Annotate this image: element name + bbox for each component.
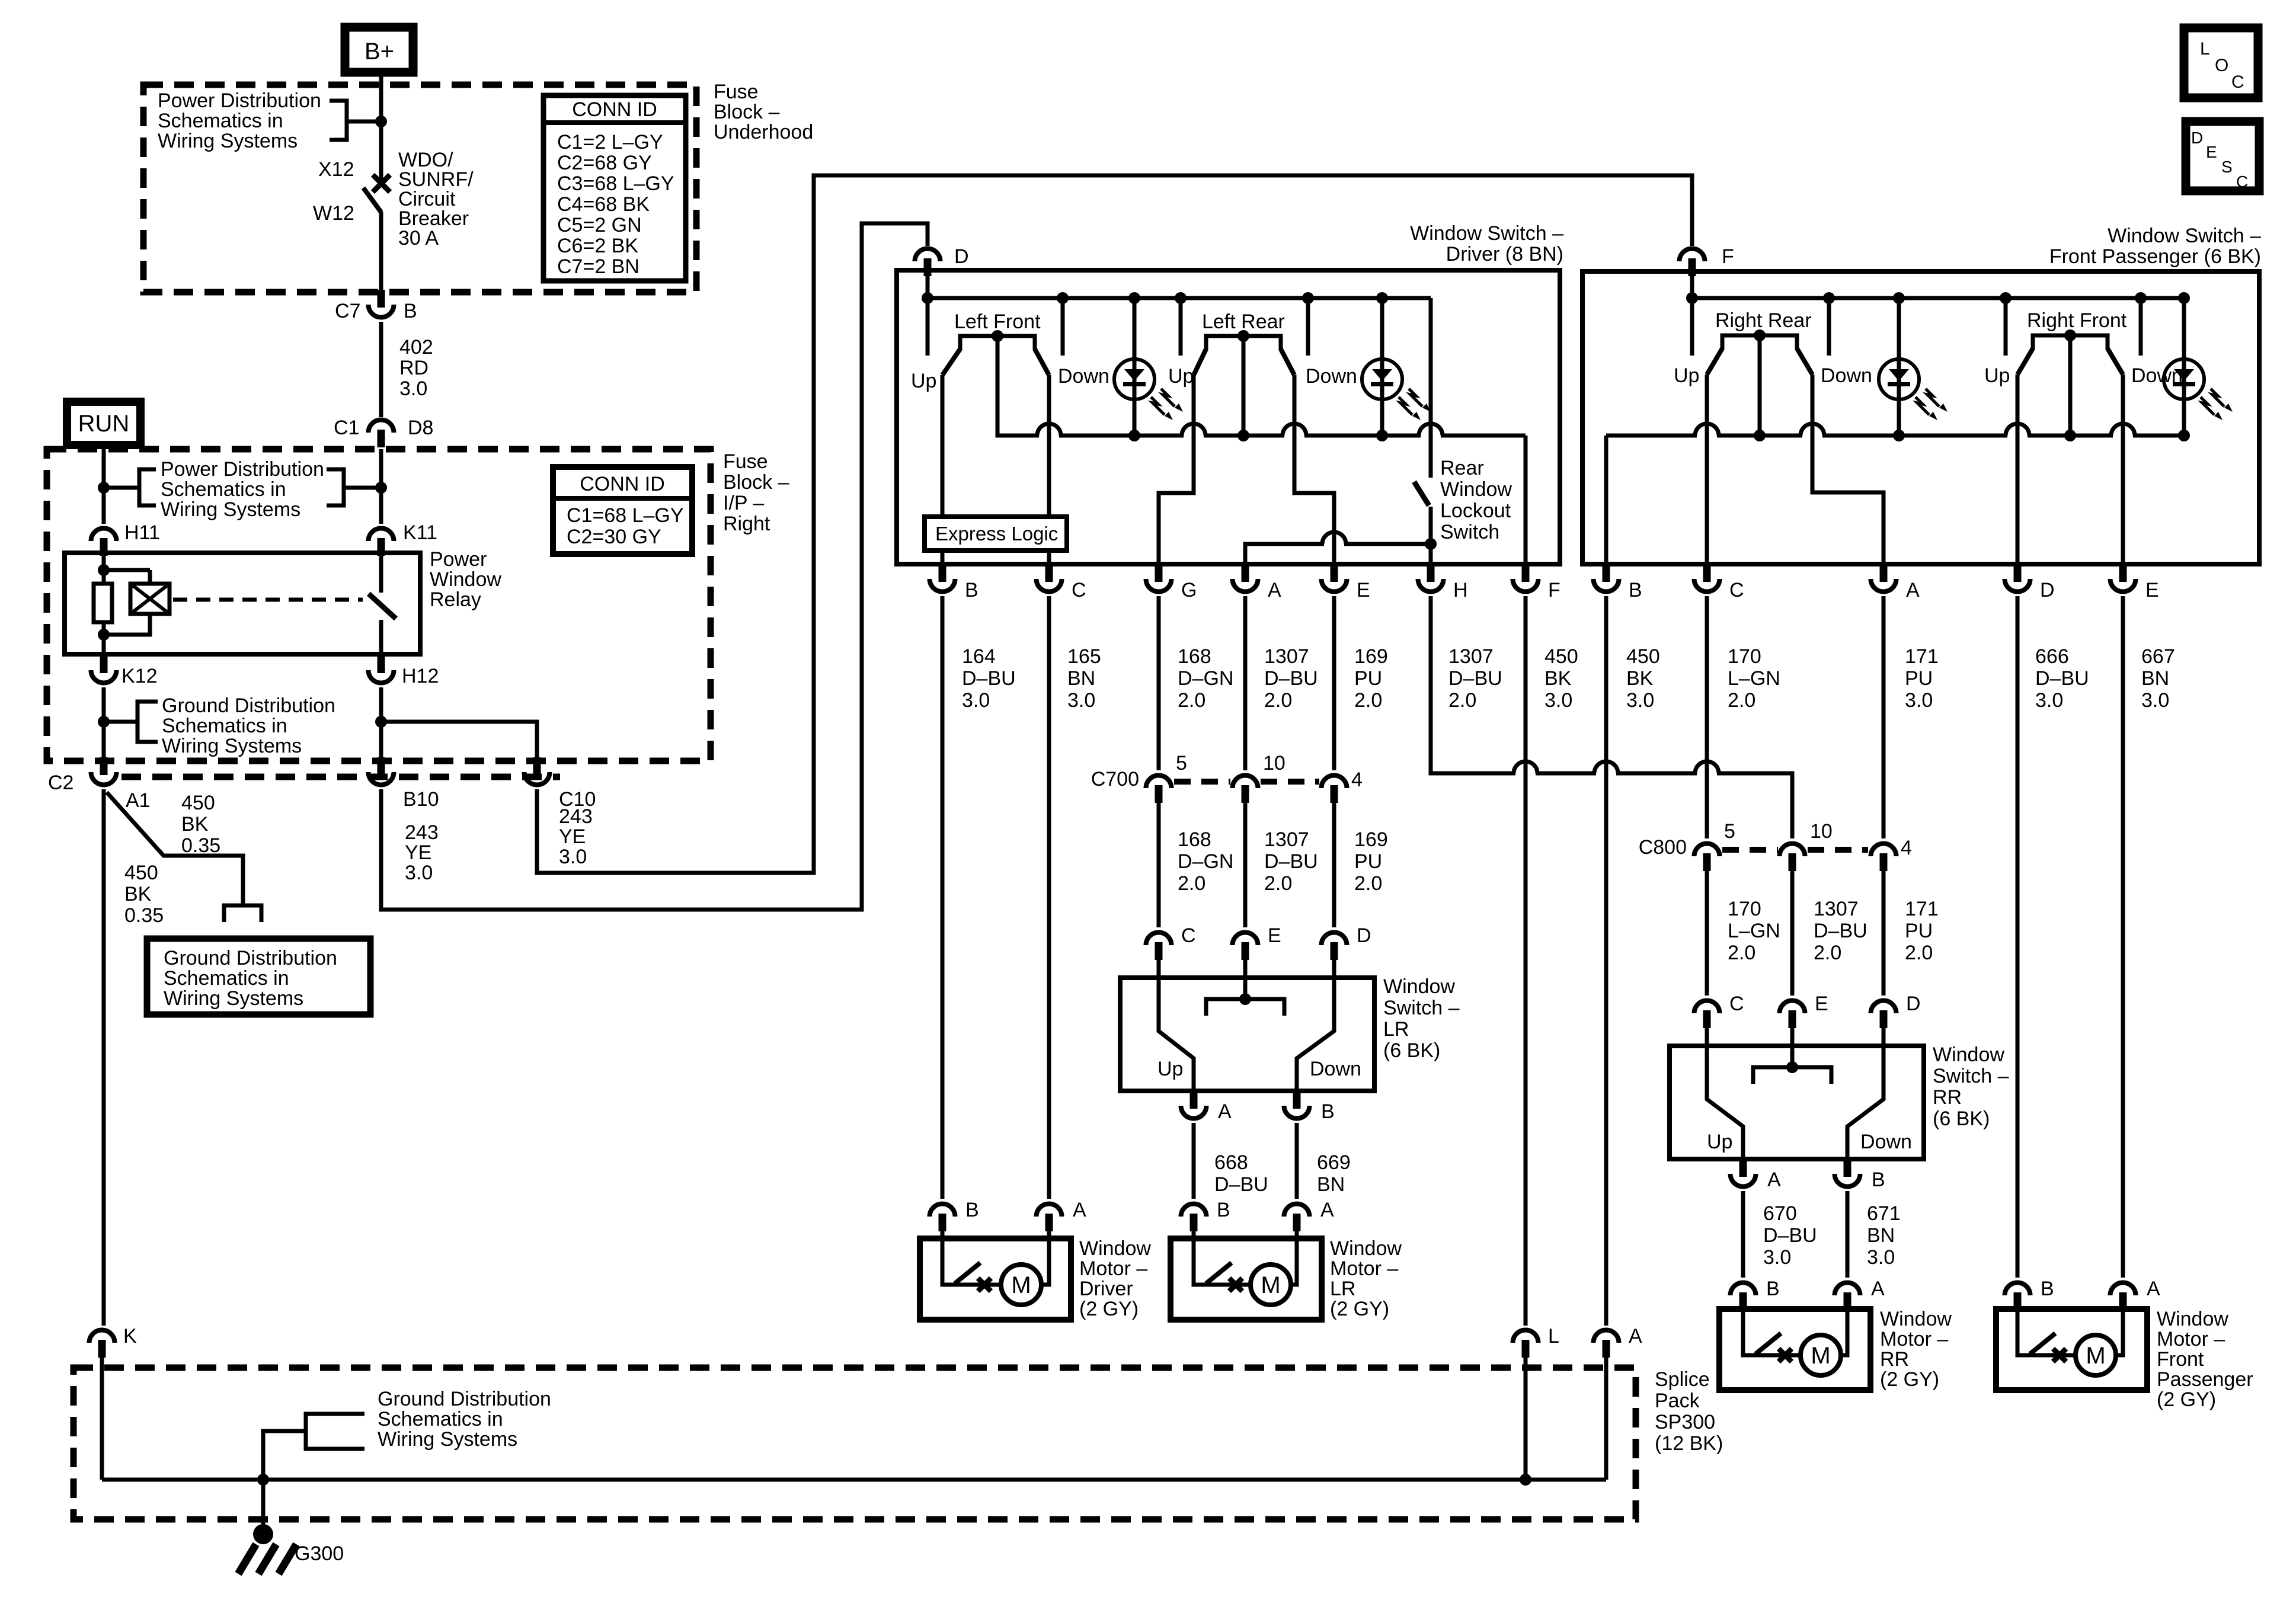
circuit breaker 30A X12/W12 bbox=[373, 175, 390, 192]
svg-text:Window: Window bbox=[1383, 975, 1455, 998]
svg-text:Ground Distribution: Ground Distribution bbox=[164, 947, 337, 969]
dashed box Fuse Block - Underhood bbox=[143, 85, 696, 292]
svg-text:B: B bbox=[404, 300, 417, 322]
svg-text:X12: X12 bbox=[318, 158, 354, 181]
svg-text:(6 BK): (6 BK) bbox=[1933, 1108, 1990, 1130]
svg-text:(2 GY): (2 GY) bbox=[1079, 1298, 1139, 1320]
svg-text:D–BU: D–BU bbox=[1264, 667, 1318, 690]
wire 670 bbox=[1741, 1191, 1745, 1278]
svg-text:C7: C7 bbox=[335, 300, 360, 322]
wire 168 pin G to C700 bbox=[1157, 596, 1161, 770]
wire 171 FP pin A to C800 bbox=[1882, 596, 1886, 838]
svg-text:C7=2 BN: C7=2 BN bbox=[557, 255, 639, 278]
svg-text:Power: Power bbox=[430, 548, 487, 571]
svg-text:B: B bbox=[1872, 1169, 1885, 1191]
svg-text:Left Front: Left Front bbox=[954, 311, 1041, 333]
svg-text:B: B bbox=[1217, 1199, 1230, 1221]
svg-text:Up: Up bbox=[1707, 1131, 1732, 1153]
svg-text:Switch –: Switch – bbox=[1383, 997, 1460, 1019]
LR aux down blade bbox=[1297, 978, 1334, 1091]
power symbol B+ box bbox=[345, 27, 413, 72]
wire 164 pin B to driver motor bbox=[941, 596, 945, 1199]
svg-text:168: 168 bbox=[1178, 828, 1211, 851]
connector RR motor pin A bbox=[1835, 1283, 1860, 1296]
svg-text:165: 165 bbox=[1067, 645, 1101, 668]
box Window Switch - Driver bbox=[897, 270, 1560, 564]
svg-text:B+: B+ bbox=[364, 39, 394, 65]
svg-text:BK: BK bbox=[1544, 667, 1572, 690]
svg-text:H: H bbox=[1453, 579, 1468, 601]
svg-text:D8: D8 bbox=[408, 417, 433, 439]
svg-text:Switch: Switch bbox=[1440, 521, 1499, 543]
wire 450 pin F to splice L bbox=[1524, 596, 1528, 1326]
table CONN ID I/P bbox=[553, 467, 692, 554]
svg-text:5: 5 bbox=[1724, 820, 1735, 843]
wires C800 to RR switch bbox=[1705, 869, 1709, 996]
svg-text:S: S bbox=[2221, 158, 2233, 176]
LED left front down bbox=[1133, 347, 1137, 412]
svg-text:A: A bbox=[1906, 579, 1920, 601]
relay switch bbox=[379, 555, 383, 593]
svg-text:Window: Window bbox=[1440, 478, 1512, 501]
connector C7 pin B bbox=[369, 305, 394, 318]
driver bus1 bbox=[928, 296, 1431, 300]
svg-text:PU: PU bbox=[1905, 667, 1933, 690]
wire 668 bbox=[1192, 1123, 1196, 1199]
svg-text:2.0: 2.0 bbox=[1264, 689, 1292, 712]
svg-text:BK: BK bbox=[124, 883, 152, 905]
svg-text:Down: Down bbox=[1821, 364, 1872, 387]
svg-text:Down: Down bbox=[1860, 1131, 1912, 1153]
connector C10 bbox=[525, 772, 550, 785]
svg-text:Right: Right bbox=[723, 513, 770, 535]
FP bus2 bbox=[1606, 434, 2184, 438]
svg-text:LR: LR bbox=[1330, 1278, 1355, 1300]
svg-text:Down: Down bbox=[2131, 364, 2183, 387]
svg-text:Wiring Systems: Wiring Systems bbox=[161, 498, 300, 521]
svg-text:E: E bbox=[1268, 924, 1281, 947]
wire 169 pin E to C700 bbox=[1332, 596, 1336, 770]
relay coil linkage dashed bbox=[173, 598, 363, 602]
svg-text:Power Distribution: Power Distribution bbox=[158, 89, 321, 112]
wire 402 RD bbox=[379, 322, 383, 417]
svg-text:667: 667 bbox=[2141, 645, 2175, 668]
wire K into splice pack bbox=[100, 1357, 104, 1480]
RR aux up blade bbox=[1707, 1046, 1743, 1159]
svg-text:B: B bbox=[1766, 1278, 1780, 1300]
svg-text:Wiring Systems: Wiring Systems bbox=[378, 1428, 517, 1451]
svg-text:Switch –: Switch – bbox=[1933, 1065, 2009, 1087]
svg-text:Power Distribution: Power Distribution bbox=[161, 458, 324, 481]
svg-text:30 A: 30 A bbox=[398, 227, 439, 249]
wire 165 pin C to driver motor bbox=[1047, 596, 1051, 1199]
svg-text:B: B bbox=[965, 1199, 979, 1221]
connector K12 bbox=[91, 670, 117, 683]
svg-text:D–BU: D–BU bbox=[2035, 667, 2089, 690]
svg-text:670: 670 bbox=[1763, 1202, 1797, 1225]
svg-text:E: E bbox=[1357, 579, 1370, 601]
svg-text:2.0: 2.0 bbox=[1178, 689, 1205, 712]
window motor RR bbox=[1719, 1309, 1870, 1390]
connector LR motor pin A bbox=[1284, 1204, 1310, 1217]
svg-text:Schematics in: Schematics in bbox=[158, 110, 283, 132]
svg-text:243: 243 bbox=[405, 821, 439, 844]
LR down blade wire to pin E bbox=[1294, 375, 1334, 564]
svg-text:I/P –: I/P – bbox=[723, 492, 764, 514]
svg-text:C3=68 L–GY: C3=68 L–GY bbox=[557, 172, 674, 195]
svg-text:0.35: 0.35 bbox=[124, 904, 164, 927]
svg-text:RUN: RUN bbox=[78, 411, 130, 437]
driver switch pins bbox=[930, 579, 955, 592]
LF common wire bbox=[997, 336, 1526, 436]
rocker left front bbox=[960, 336, 1035, 350]
svg-text:Ground Distribution: Ground Distribution bbox=[378, 1388, 551, 1410]
connectors into RR switch bbox=[1694, 1001, 1720, 1014]
connector K bbox=[89, 1330, 115, 1343]
svg-text:CONN ID: CONN ID bbox=[572, 98, 657, 121]
svg-text:Window: Window bbox=[430, 568, 501, 591]
svg-text:Up: Up bbox=[1157, 1058, 1183, 1080]
svg-text:Wiring Systems: Wiring Systems bbox=[158, 130, 298, 152]
svg-text:168: 168 bbox=[1178, 645, 1211, 668]
LED right rear down bbox=[1897, 347, 1901, 412]
bus1 contact stubs bbox=[926, 298, 930, 356]
svg-text:2.0: 2.0 bbox=[1448, 689, 1476, 712]
node H12 to C10 branch bbox=[375, 716, 387, 728]
svg-text:Down: Down bbox=[1310, 1058, 1361, 1080]
RF common wire bbox=[2068, 335, 2073, 436]
ground G300 bbox=[261, 1480, 266, 1529]
svg-text:3.0: 3.0 bbox=[1626, 689, 1654, 712]
box Window Switch - Front Passenger bbox=[1582, 271, 2259, 564]
svg-text:2.0: 2.0 bbox=[1728, 689, 1755, 712]
svg-text:W12: W12 bbox=[313, 202, 354, 225]
svg-text:402: 402 bbox=[399, 336, 433, 359]
express logic box bbox=[925, 517, 1067, 550]
svg-text:Fuse: Fuse bbox=[723, 450, 768, 473]
svg-text:171: 171 bbox=[1905, 898, 1939, 920]
connector B10 bbox=[369, 772, 394, 785]
relay box Power Window Relay bbox=[65, 553, 420, 654]
svg-text:CONN ID: CONN ID bbox=[580, 473, 665, 495]
LR aux pins bbox=[1181, 1106, 1207, 1119]
svg-text:Window: Window bbox=[1079, 1237, 1151, 1260]
wire D into bus bbox=[926, 270, 930, 298]
svg-text:E: E bbox=[2145, 579, 2159, 601]
connector C2 pin A1 bbox=[91, 772, 117, 785]
svg-text:PU: PU bbox=[1905, 920, 1933, 942]
node on C1-D8 wire bbox=[375, 482, 387, 494]
svg-text:B: B bbox=[2041, 1278, 2054, 1300]
svg-text:(2 GY): (2 GY) bbox=[1330, 1298, 1389, 1320]
svg-text:C1=2 L–GY: C1=2 L–GY bbox=[557, 131, 663, 153]
rocker left rear bbox=[1206, 336, 1281, 350]
wire A1 branch bbox=[107, 792, 243, 905]
svg-text:450: 450 bbox=[124, 862, 158, 884]
box Window Switch - RR bbox=[1670, 1046, 1924, 1159]
connector C1 pin D8 bbox=[369, 420, 394, 433]
svg-text:A: A bbox=[1218, 1100, 1232, 1123]
svg-text:3.0: 3.0 bbox=[962, 689, 990, 712]
svg-text:C2=30 GY: C2=30 GY bbox=[567, 526, 661, 548]
svg-text:C: C bbox=[1181, 924, 1196, 947]
svg-text:1307: 1307 bbox=[1448, 645, 1494, 668]
wire pin A to lockout bbox=[1245, 544, 1431, 564]
svg-text:3.0: 3.0 bbox=[2141, 689, 2169, 712]
svg-text:(12 BK): (12 BK) bbox=[1655, 1432, 1723, 1455]
svg-text:D: D bbox=[1906, 993, 1921, 1015]
svg-text:Pack: Pack bbox=[1655, 1390, 1700, 1412]
svg-text:450: 450 bbox=[1626, 645, 1660, 668]
svg-text:Splice: Splice bbox=[1655, 1368, 1710, 1391]
svg-text:Up: Up bbox=[1674, 364, 1699, 387]
svg-text:Front: Front bbox=[2157, 1348, 2204, 1371]
FP bus1 bbox=[1692, 296, 2184, 300]
dashed box Splice Pack SP300 bbox=[73, 1368, 1636, 1519]
relay coil branch bbox=[102, 555, 106, 584]
svg-text:M: M bbox=[1261, 1272, 1280, 1298]
FP bus1 contact stubs bbox=[1690, 298, 1694, 356]
svg-text:C5=2 GN: C5=2 GN bbox=[557, 214, 642, 236]
svg-text:Block –: Block – bbox=[723, 471, 789, 494]
LF up blade wire to pin B bbox=[941, 375, 945, 564]
svg-text:C: C bbox=[1729, 993, 1744, 1015]
wire C1 to K11 bbox=[379, 449, 383, 524]
svg-text:PU: PU bbox=[1354, 850, 1382, 873]
svg-text:Schematics in: Schematics in bbox=[378, 1408, 503, 1430]
svg-text:3.0: 3.0 bbox=[1905, 689, 1933, 712]
wire 450 BK 0.35 to K bbox=[102, 789, 106, 1326]
wire F into bus bbox=[1690, 271, 1694, 298]
connector H12 bbox=[369, 670, 394, 683]
svg-text:RR: RR bbox=[1933, 1086, 1962, 1109]
RR common wire bbox=[1758, 335, 1762, 436]
svg-text:M: M bbox=[2086, 1343, 2105, 1369]
svg-text:G: G bbox=[1181, 579, 1197, 601]
RF down blade wire to pin E bbox=[2121, 375, 2125, 564]
svg-text:E: E bbox=[2206, 143, 2217, 161]
svg-text:170: 170 bbox=[1728, 898, 1761, 920]
window motor LR bbox=[1171, 1238, 1322, 1320]
svg-text:Rear: Rear bbox=[1440, 457, 1484, 479]
bracket to ground bus bbox=[306, 1414, 364, 1449]
svg-text:2.0: 2.0 bbox=[1354, 872, 1382, 895]
svg-text:F: F bbox=[1548, 579, 1560, 601]
LR aux up blade bbox=[1159, 978, 1194, 1091]
svg-text:3.0: 3.0 bbox=[1867, 1246, 1895, 1269]
LF down blade wire to pin C bbox=[1047, 375, 1051, 564]
svg-text:Window: Window bbox=[1330, 1237, 1402, 1260]
svg-text:3.0: 3.0 bbox=[1763, 1246, 1791, 1269]
window motor front passenger bbox=[1996, 1309, 2147, 1390]
LR aux common bbox=[1243, 978, 1248, 999]
svg-text:Window: Window bbox=[1933, 1044, 2004, 1066]
connector L bbox=[1513, 1330, 1539, 1343]
svg-text:Fuse: Fuse bbox=[714, 81, 759, 103]
svg-text:Relay: Relay bbox=[430, 588, 481, 611]
wire C10 feed to F bbox=[537, 175, 1692, 873]
svg-text:10: 10 bbox=[1263, 752, 1285, 774]
svg-text:4: 4 bbox=[1901, 837, 1912, 859]
bracket to B+ wire bbox=[330, 101, 347, 140]
connector driver motor pin B bbox=[930, 1204, 955, 1217]
svg-text:243: 243 bbox=[559, 805, 593, 828]
svg-text:K: K bbox=[123, 1325, 137, 1347]
relay resistor bbox=[94, 584, 112, 622]
svg-text:Left Rear: Left Rear bbox=[1202, 311, 1285, 333]
svg-text:H12: H12 bbox=[402, 665, 439, 687]
box Ground Distribution Schematics (reference) bbox=[147, 939, 370, 1014]
wire 669 bbox=[1295, 1123, 1299, 1199]
svg-text:Up: Up bbox=[1984, 364, 2010, 387]
window motor driver bbox=[920, 1238, 1071, 1320]
svg-text:C4=68 BK: C4=68 BK bbox=[557, 193, 650, 216]
svg-text:C6=2 BK: C6=2 BK bbox=[557, 235, 638, 257]
dashed box Fuse Block - I/P - Right bbox=[47, 449, 711, 761]
connector FP motor pin A bbox=[2110, 1283, 2136, 1296]
connector H11 bbox=[91, 528, 117, 541]
svg-text:A: A bbox=[1629, 1325, 1642, 1347]
RR down blade wire to pin A bbox=[1812, 375, 1884, 564]
svg-text:G300: G300 bbox=[295, 1542, 344, 1565]
FP bus2 to pin B bbox=[1604, 436, 1609, 564]
svg-text:3.0: 3.0 bbox=[1067, 689, 1095, 712]
rocker right front bbox=[2033, 335, 2108, 350]
svg-text:1307: 1307 bbox=[1264, 645, 1309, 668]
svg-text:Window Switch –: Window Switch – bbox=[1410, 222, 1563, 245]
svg-text:Block –: Block – bbox=[714, 101, 780, 123]
svg-text:4: 4 bbox=[1351, 769, 1363, 791]
wire 671 bbox=[1846, 1191, 1850, 1278]
svg-text:D–GN: D–GN bbox=[1178, 850, 1233, 873]
svg-text:L–GN: L–GN bbox=[1728, 667, 1780, 690]
svg-text:Express Logic: Express Logic bbox=[935, 523, 1058, 545]
svg-text:3.0: 3.0 bbox=[399, 377, 427, 400]
svg-text:C: C bbox=[2236, 172, 2248, 191]
connector D bbox=[915, 249, 941, 262]
wire B10 feed to D bbox=[381, 223, 928, 910]
svg-text:666: 666 bbox=[2035, 645, 2069, 668]
svg-text:C800: C800 bbox=[1639, 836, 1687, 859]
wire 1307 pin H to C800 bbox=[1431, 596, 1792, 838]
RR aux pins bbox=[1731, 1174, 1756, 1187]
svg-text:Window Switch –: Window Switch – bbox=[2108, 225, 2261, 247]
svg-text:H11: H11 bbox=[124, 521, 160, 544]
svg-text:2.0: 2.0 bbox=[1178, 872, 1205, 895]
connectors into LR switch bbox=[1146, 932, 1172, 945]
connector RR motor pin B bbox=[1731, 1283, 1756, 1296]
node junction on B+ wire bbox=[375, 116, 387, 127]
svg-text:D: D bbox=[954, 245, 969, 268]
svg-text:169: 169 bbox=[1354, 828, 1388, 851]
RR up blade wire to pin C bbox=[1705, 375, 1709, 564]
svg-text:5: 5 bbox=[1176, 752, 1187, 774]
svg-text:Motor –: Motor – bbox=[1079, 1257, 1147, 1280]
svg-text:Motor –: Motor – bbox=[2157, 1328, 2225, 1350]
node G300 junction bbox=[257, 1474, 269, 1486]
connector F bbox=[1680, 249, 1705, 262]
inline connector C700 bbox=[1146, 776, 1172, 789]
svg-text:BK: BK bbox=[181, 813, 209, 836]
svg-text:Window: Window bbox=[1880, 1308, 1952, 1330]
dashed boundary at C2 bbox=[121, 774, 560, 780]
wire 666 FP pin D to FP motor bbox=[2016, 596, 2020, 1278]
svg-text:Motor –: Motor – bbox=[1330, 1257, 1398, 1280]
svg-text:D–BU: D–BU bbox=[962, 667, 1016, 690]
svg-text:(2 GY): (2 GY) bbox=[2157, 1388, 2216, 1411]
svg-text:Driver (8 BN): Driver (8 BN) bbox=[1446, 243, 1563, 265]
LED right front down bbox=[2182, 347, 2186, 412]
box Window Switch - LR bbox=[1120, 978, 1374, 1091]
svg-text:B: B bbox=[965, 579, 978, 601]
svg-text:A: A bbox=[1767, 1169, 1781, 1191]
svg-text:B10: B10 bbox=[403, 788, 439, 811]
svg-text:(6 BK): (6 BK) bbox=[1383, 1039, 1440, 1062]
svg-text:D–BU: D–BU bbox=[1763, 1224, 1817, 1247]
svg-text:RR: RR bbox=[1880, 1348, 1909, 1371]
svg-text:D–BU: D–BU bbox=[1448, 667, 1502, 690]
svg-text:D–BU: D–BU bbox=[1814, 920, 1868, 942]
inline connector C800 bbox=[1694, 844, 1720, 857]
wire RUN to H11 bbox=[102, 445, 106, 524]
svg-text:3.0: 3.0 bbox=[2035, 689, 2063, 712]
svg-text:M: M bbox=[1011, 1272, 1031, 1298]
svg-text:BN: BN bbox=[2141, 667, 2169, 690]
svg-text:E: E bbox=[1815, 993, 1828, 1015]
svg-text:669: 669 bbox=[1317, 1151, 1351, 1174]
wire B+ to breaker bbox=[379, 72, 383, 185]
connector A splice bbox=[1594, 1330, 1619, 1343]
svg-text:D–GN: D–GN bbox=[1178, 667, 1233, 690]
svg-text:A: A bbox=[1871, 1278, 1885, 1300]
svg-text:K11: K11 bbox=[403, 521, 437, 544]
svg-text:C700: C700 bbox=[1091, 768, 1139, 790]
LR common wire bbox=[1242, 336, 1246, 436]
svg-text:Underhood: Underhood bbox=[714, 121, 813, 143]
svg-text:BN: BN bbox=[1317, 1173, 1345, 1196]
wire K12 to C2 bbox=[102, 687, 106, 760]
svg-text:RD: RD bbox=[399, 357, 428, 379]
svg-text:C: C bbox=[2231, 72, 2244, 92]
svg-text:Front Passenger (6 BK): Front Passenger (6 BK) bbox=[2049, 245, 2261, 268]
bracket right to C1 wire bbox=[327, 469, 344, 505]
ground bus wire bbox=[102, 1478, 1606, 1482]
svg-text:BK: BK bbox=[1626, 667, 1654, 690]
svg-text:1307: 1307 bbox=[1814, 898, 1859, 920]
svg-text:D: D bbox=[2040, 579, 2055, 601]
node on RUN wire bbox=[98, 482, 110, 494]
svg-text:3.0: 3.0 bbox=[405, 862, 433, 884]
svg-text:170: 170 bbox=[1728, 645, 1761, 668]
RR aux down blade bbox=[1847, 1046, 1884, 1159]
LED left rear down bbox=[1380, 347, 1384, 412]
wire H12 down to B10 bbox=[379, 687, 383, 760]
svg-text:A: A bbox=[2147, 1278, 2160, 1300]
svg-text:C: C bbox=[1072, 579, 1086, 601]
wire 170 FP pin C to C800 bbox=[1705, 596, 1709, 838]
svg-text:L–GN: L–GN bbox=[1728, 920, 1780, 942]
connector FP motor pin B bbox=[2005, 1283, 2030, 1296]
svg-text:PU: PU bbox=[1354, 667, 1382, 690]
svg-text:YE: YE bbox=[405, 841, 431, 864]
svg-text:A: A bbox=[1268, 579, 1281, 601]
svg-text:Up: Up bbox=[911, 370, 936, 392]
svg-text:B: B bbox=[1321, 1100, 1335, 1123]
svg-text:C2=68 GY: C2=68 GY bbox=[557, 152, 652, 174]
rear window lockout switch bbox=[1429, 298, 1433, 478]
FP switch pins bbox=[1594, 579, 1619, 592]
svg-text:3.0: 3.0 bbox=[1544, 689, 1572, 712]
